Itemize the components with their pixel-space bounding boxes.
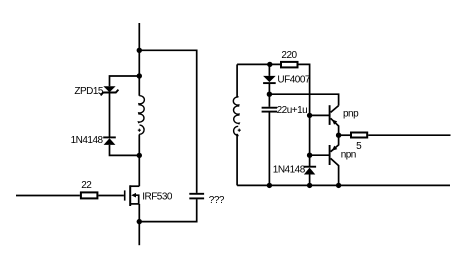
svg-text:22u+1u: 22u+1u [277, 105, 308, 116]
wire: gate input from left [16, 195, 80, 197]
wire: mid rail to pnp collector [269, 94, 338, 105]
node: junction top (to snubber cap branch) [137, 48, 142, 53]
wire: branch right to capacitor top [139, 50, 196, 193]
wire: npn base [310, 154, 330, 156]
svg-text:5: 5 [356, 141, 362, 152]
svg-text:???: ??? [209, 195, 225, 206]
wire: top junction to UF4007 [268, 64, 270, 76]
wire: UF4007 to mid rail [268, 84, 270, 94]
label IRF530 [142, 191, 173, 202]
label ZPD15 [74, 86, 104, 97]
node: junction at source [137, 219, 142, 224]
wire: right coil vertical bottom [236, 134, 238, 186]
diode 1N4148 (left) [103, 137, 116, 145]
node: junction pnp base [307, 113, 312, 118]
transistor IRF530 (N-MOSFET) [125, 185, 140, 206]
wire: resistor to gate [98, 195, 124, 197]
label 5 [356, 141, 362, 152]
node: junction ground at diode [307, 183, 312, 188]
wire: source down [138, 204, 140, 245]
label 1N4148 (left) [71, 135, 104, 146]
label 220 [281, 50, 297, 61]
node: junction ground at cap [267, 183, 272, 188]
transistor pnp [330, 105, 339, 135]
wire: zener to diode [109, 92, 111, 137]
wire: capacitor bottom return [139, 199, 196, 221]
wire: right circuit top rail [237, 63, 280, 65]
wire: ground rail [237, 184, 450, 186]
capacitor 22u+1u [262, 108, 278, 112]
transistor npn [330, 135, 339, 185]
node: junction ground at npn collector [336, 183, 341, 188]
wire: output node to resistor 5 [339, 134, 350, 136]
label 1N4148 (right) [273, 164, 306, 175]
resistor 22 (gate) [81, 192, 98, 198]
svg-text:ZPD15: ZPD15 [74, 86, 104, 97]
node: junction npn base [307, 153, 312, 158]
svg-text:UF4007: UF4007 [277, 74, 311, 85]
wire: output to right edge [368, 134, 450, 136]
svg-text:npn: npn [341, 149, 356, 160]
diode 1N4148 (right) [304, 167, 317, 175]
diode UF4007 [263, 76, 276, 83]
svg-text:pnp: pnp [343, 109, 359, 120]
wire: left main vertical top [138, 23, 140, 96]
svg-text:22: 22 [81, 180, 92, 191]
node: junction top rail at diode [267, 62, 272, 67]
inductor L1 (primary winding) [138, 96, 145, 135]
wire: pnp base [310, 114, 330, 116]
wire: coil bottom to MOSFET drain [138, 135, 140, 187]
label 22 [81, 180, 92, 191]
wire: branch left to zener [110, 76, 140, 86]
wire: diode to ground rail [309, 175, 311, 186]
svg-text:IRF530: IRF530 [142, 191, 173, 202]
capacitor ??? (snubber) [189, 194, 204, 199]
wire: right coil vertical top [236, 64, 238, 97]
svg-text:1N4148: 1N4148 [71, 135, 104, 146]
wire: cap 22u+1u top stub [268, 94, 270, 107]
label 22u+1u [277, 105, 308, 116]
node: junction at diode return [137, 153, 142, 158]
svg-text:220: 220 [281, 50, 297, 61]
svg-text:1N4148: 1N4148 [273, 164, 306, 175]
label ??? [209, 195, 225, 206]
label pnp [343, 109, 359, 120]
node: junction mid rail [267, 92, 272, 97]
wire: diode down and right to main [110, 145, 140, 156]
inductor L2 (secondary winding) [233, 96, 240, 135]
label npn [341, 149, 356, 160]
node: junction at zener branch [137, 73, 142, 78]
label UF4007 [277, 74, 311, 85]
wire: cap bottom to ground rail [268, 113, 270, 186]
wire: 220 output down [299, 64, 310, 166]
zener diode ZPD15 [101, 86, 119, 95]
resistor 220 [281, 62, 298, 68]
resistor 5 [351, 133, 367, 138]
node: junction output emitters [336, 133, 341, 138]
